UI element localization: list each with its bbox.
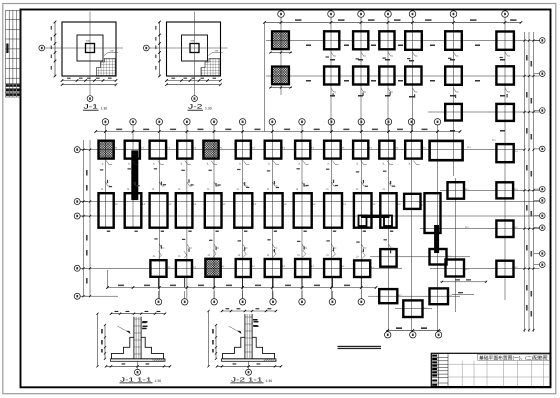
main footing row3-8	[354, 260, 370, 277]
right axis bubble 2	[540, 71, 546, 77]
plan bottom mid axis bubble 2	[410, 332, 416, 338]
beam connection between pile caps	[361, 215, 390, 218]
main pile cap tall right	[425, 193, 441, 233]
upper block footing A7	[496, 32, 514, 50]
upper block horizontal axis row 2	[266, 75, 540, 77]
section J-2 1-1 stem rebar marks	[253, 319, 258, 327]
main grid axis bubble top 11	[385, 119, 391, 125]
section J-2 1-1 left dim text marks	[212, 329, 214, 353]
section J-1 1-1 bottom dimension line	[106, 365, 170, 367]
main footing row4 b	[430, 288, 449, 304]
detail J-1 vertical centerline	[89, 12, 91, 96]
section J-1 1-1 stepped footing profile	[112, 337, 134, 359]
detail J-2 bottom dimension line 2	[167, 84, 221, 86]
main grid axis bubble top 5	[211, 119, 217, 125]
section J-1 1-1 column stem	[134, 317, 141, 359]
plan bottom axis bubble 6	[299, 299, 305, 305]
main footing row1-11	[379, 141, 394, 159]
detail J-1 left dimension text marks	[51, 26, 52, 70]
detail J-2 horizontal centerline	[149, 47, 227, 49]
svg-text:1:30: 1:30	[205, 107, 212, 111]
plan bottom axis bubble 7	[329, 299, 335, 305]
right vertical dimension lines	[525, 32, 534, 332]
main footing row1-10	[353, 141, 368, 159]
detail J-1 inner square	[77, 35, 103, 61]
right axis bubble 6	[540, 198, 546, 204]
svg-text:J-2: J-2	[188, 104, 203, 111]
upper block axis bubble 6	[450, 11, 457, 18]
labels under pile caps	[107, 231, 393, 232]
upper block top dimension numbers	[295, 19, 517, 21]
main footing row3-3	[205, 259, 220, 277]
right axis bubble 5	[540, 186, 546, 192]
main footing mid-right upper	[448, 182, 465, 199]
upper block footing A1	[272, 31, 289, 49]
svg-text:J-2 1-1: J-2 1-1	[231, 376, 263, 383]
main pile cap row2-7	[265, 193, 283, 228]
detail J-2 outer square	[167, 22, 221, 76]
svg-text:J-1: J-1	[84, 104, 99, 111]
plan bottom bubble stems	[159, 291, 362, 299]
main pile cap row2-2	[125, 193, 142, 228]
upper block axis bubble 1	[278, 11, 285, 18]
detail J-2 bottom axis bubble	[192, 96, 198, 102]
plan tiny labels	[101, 139, 519, 310]
section J-2 1-1 top dimension line	[222, 310, 276, 312]
main grid axis bubble top 2	[130, 119, 136, 125]
upper block footing C2	[496, 104, 514, 121]
main footing row3-7	[324, 259, 341, 277]
plan bottom dimension line left	[108, 287, 377, 289]
upper block top dimension line	[265, 21, 522, 23]
right axis bubble 4	[540, 146, 546, 152]
main footing row3-1	[150, 260, 166, 277]
upper block footing A2	[324, 31, 339, 49]
main footing row1-6	[236, 141, 251, 159]
main footing row1-9	[324, 141, 341, 159]
right area dimension line	[440, 281, 487, 283]
upper block footing B7	[496, 66, 514, 84]
upper block footing B4	[379, 67, 394, 85]
upper block axis bubble 5	[409, 11, 416, 18]
left bubble stems	[80, 150, 88, 297]
plan bottom mid axis bubble 1	[385, 332, 391, 338]
section J-1 1-1 note marks	[143, 321, 148, 327]
main footing row3-6	[295, 259, 310, 277]
section J-1 1-1 base slab	[111, 359, 166, 362]
upper block footing C1	[445, 104, 462, 121]
section J-2 1-1 axis bubble	[246, 369, 252, 375]
detail J-1 hatched corner zone	[97, 59, 116, 76]
section J-1 1-1 top dimension line	[111, 313, 165, 315]
main footing stagger a	[380, 249, 396, 267]
detail J-2 column square	[190, 44, 199, 53]
labels under pile caps	[107, 231, 393, 232]
main footing row1 wide cap	[430, 141, 463, 160]
right axis bubble 3	[540, 108, 546, 114]
detail J-2 bottom dimension text marks	[172, 78, 217, 79]
detail J-1 corner leader note	[104, 53, 118, 56]
main plan horizontal axis lines	[80, 150, 540, 309]
left dimension text marks	[86, 170, 88, 284]
plan bottom dimension numbers mid	[396, 327, 427, 329]
main grid axis bubble top 7	[269, 119, 275, 125]
right axis bubble 1	[540, 38, 546, 44]
column wall bar lower	[434, 225, 439, 253]
upper block annotation marks	[326, 56, 508, 98]
main footing right column r3	[496, 221, 513, 238]
right axis bubble 9	[540, 251, 546, 257]
detail J-2 inner square	[182, 35, 208, 61]
svg-text:J-1 1-1: J-1 1-1	[120, 377, 152, 383]
section J-1 1-1 left dim text marks	[101, 329, 103, 353]
title block title frame	[478, 354, 550, 360]
scale bar	[338, 346, 382, 347]
main pile cap row2-8	[294, 193, 312, 228]
svg-text:1:30: 1:30	[155, 379, 162, 383]
upper block footing B6	[445, 67, 462, 85]
column section in pile cap a	[359, 216, 367, 227]
main grid axis bubble top 1	[102, 119, 108, 125]
main footing row1-2	[125, 141, 140, 159]
plan bottom axis bubble 8	[358, 299, 364, 305]
title block outer	[431, 353, 550, 386]
main grid axis bubble top 8	[299, 119, 305, 125]
main footing row1-8	[295, 141, 310, 159]
detail J-1 outer square	[62, 22, 116, 76]
plan bottom axis bubble 1	[155, 299, 161, 305]
upper block footing B5	[405, 67, 421, 85]
detail J-1 horizontal centerline	[45, 47, 123, 49]
upper block beam labels	[306, 45, 505, 132]
plan bottom mid axis bubble 3	[435, 332, 441, 338]
detail J-2 left dimension line	[159, 22, 161, 76]
svg-text:1:30: 1:30	[101, 107, 108, 111]
upper block footing A3	[353, 31, 368, 49]
section J-2 1-1 leader arrow	[237, 331, 242, 335]
upper block footing A6	[445, 31, 462, 50]
section J-2 1-1 stepped footing profile	[223, 337, 245, 359]
main footing row1-3	[150, 141, 167, 159]
upper block axis bubble 7	[502, 11, 509, 18]
section J-1 1-1 slab hatch	[153, 359, 166, 362]
main pile cap row2-9	[324, 193, 342, 228]
detail J-2 vertical centerline	[194, 12, 196, 96]
title block left table labels	[432, 355, 437, 386]
detail J-1 bottom dimension line 1	[62, 80, 116, 82]
main grid axis bubble top 12	[408, 119, 414, 125]
plan annotation hooks between rows	[105, 182, 393, 248]
upper block footing B2	[324, 67, 339, 85]
section J-2 1-1 far left dimension line	[208, 311, 210, 366]
main footing row4 a	[379, 289, 397, 303]
detail J-1 bottom axis bubble	[87, 96, 93, 102]
upper block footing A5	[405, 31, 422, 50]
upper block left footing dim ticks	[269, 51, 292, 88]
column section in pile cap b	[384, 216, 392, 227]
detail J-2 corner leader note	[209, 53, 223, 56]
section J-1 1-1 axis bubble	[135, 369, 141, 375]
section J-2 1-1 note marks	[254, 321, 259, 327]
right axis bubble 8	[540, 225, 546, 231]
section J-1 1-1 leader arrow	[126, 331, 131, 335]
upper block axis bubble 4	[385, 11, 392, 18]
upper block horizontal axis row 3	[428, 111, 540, 113]
main footing right column r4	[496, 261, 513, 277]
row3 footing stems to dim line	[159, 278, 362, 288]
upper block horizontal axis row 1	[266, 40, 540, 42]
svg-text:1:30: 1:30	[266, 379, 273, 383]
upper block axis bubble stems	[281, 17, 505, 25]
main footing row4 c	[403, 300, 422, 317]
plan bottom axis bubble 3	[211, 299, 217, 305]
right area small dim line	[452, 294, 474, 296]
section J-2 1-1 left dimension line	[215, 325, 217, 359]
left vertical dimension lines	[83, 140, 85, 296]
title block left table	[431, 353, 448, 386]
upper block axis bubble 3	[358, 11, 365, 18]
main footing row1-4	[177, 141, 192, 159]
detail J-1 bottom dimension line 2	[62, 84, 116, 86]
right dimension ticks	[523, 39, 534, 331]
main plan vertical axis lines	[105, 134, 455, 332]
main pile cap row2-4	[176, 193, 193, 228]
detail J-2 left dimension text marks	[155, 26, 156, 70]
main footing row1-1	[99, 141, 114, 159]
upper block footing B3	[353, 67, 368, 85]
detail J-2 bottom dimension line 1	[167, 80, 221, 82]
main footing row3-5	[265, 259, 282, 277]
main grid axis bubble top 10	[358, 119, 364, 125]
plan annotation marks between rows	[100, 168, 395, 253]
main plan top dimension line	[96, 131, 460, 133]
main pile cap row2-1	[99, 193, 114, 228]
main pile cap row2-10	[354, 193, 372, 228]
main footing row1-5	[203, 141, 218, 159]
upper block axis bubble 2	[328, 11, 335, 18]
main footing row2 square right of caps	[404, 194, 420, 209]
right axis bubble 7	[540, 213, 546, 219]
main footing row3-2	[176, 260, 192, 277]
main pile cap row2-11	[380, 193, 396, 228]
main pile cap row2-3	[150, 193, 168, 228]
main pile cap row2-6	[234, 193, 252, 228]
main grid axis bubble top 13	[434, 119, 440, 125]
section J-2 1-1 bottom dimension line	[217, 365, 281, 367]
detail J-1 left dimension line	[54, 22, 56, 76]
detail J-2 hatched corner zone	[201, 59, 220, 76]
plan bottom dimension line mid	[386, 329, 441, 331]
main grid axis bubble top 6	[239, 119, 245, 125]
upper block footing A4	[379, 31, 394, 49]
right axis bubble 10	[540, 262, 546, 268]
main footing stagger c	[446, 260, 465, 277]
plan bottom axis bubble 2	[182, 299, 188, 305]
section J-1 1-1 left dimension line	[104, 325, 106, 359]
left axis bubbles	[74, 147, 80, 153]
plan bottom axis bubble 4	[239, 299, 245, 305]
plan leader hooks	[106, 161, 419, 259]
upper block leader hooks	[331, 52, 510, 92]
detail J-1 bottom dimension text marks	[67, 78, 112, 79]
column wall bar upper	[131, 150, 138, 200]
signature strip table	[6, 10, 21, 97]
detail J-1 left axis bubble	[39, 45, 45, 51]
detail J-1 column square	[86, 44, 95, 53]
plan bottom dimension numbers left	[118, 285, 350, 287]
section J-2 1-1 base slab	[222, 359, 277, 362]
main footing row1-7	[265, 141, 282, 159]
main footing row1 right	[496, 144, 513, 162]
main footing right column r2	[496, 182, 513, 198]
detail J-2 left axis bubble	[143, 45, 149, 51]
right bubble stems	[534, 40, 540, 264]
main grid axis bubble top 3	[156, 119, 162, 125]
main grid bubble stems top	[105, 125, 437, 134]
signature strip text marks	[6, 44, 20, 96]
main plan top dimension numbers	[116, 129, 427, 131]
section J-1 1-1 far left dimension line	[97, 314, 99, 367]
main footing row3-4	[236, 259, 251, 277]
section J-2 1-1 column stem	[245, 314, 252, 359]
title block inner grid	[448, 361, 551, 387]
main pile cap row2-5	[205, 193, 222, 228]
right dimension text marks	[526, 55, 532, 317]
main grid axis bubble top 4	[184, 119, 190, 125]
section J-2 1-1 slab hatch	[264, 359, 277, 362]
upper block footing B1	[272, 67, 289, 85]
main grid axis bubble top 9	[328, 119, 334, 125]
upper block vertical axis lines	[265, 22, 506, 300]
main footing stagger b	[430, 249, 447, 265]
plan bottom axis bubble 5	[270, 299, 276, 305]
section J-1 1-1 stem rebar marks	[142, 322, 147, 330]
main footing row1-12	[405, 141, 422, 159]
